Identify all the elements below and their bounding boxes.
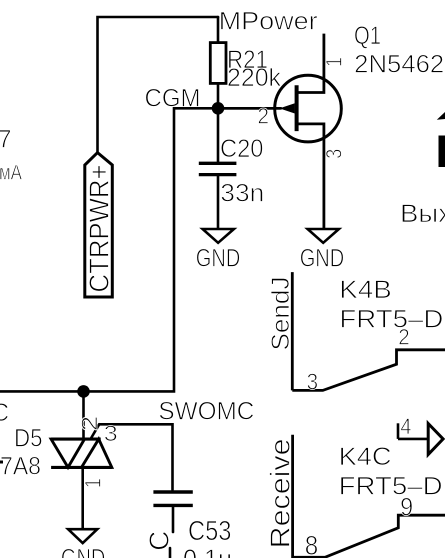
wire C53 bottom lead: [172, 507, 175, 532]
svg-text:FRT5–D: FRT5–D: [339, 306, 443, 334]
TVS diode D5: [51, 439, 112, 467]
svg-text:GND: GND: [196, 245, 241, 273]
port arrow pin 4 of K4C: [398, 423, 443, 454]
junction dot SWOMC node: [77, 385, 90, 398]
wire C20 bottom to ground: [217, 176, 220, 229]
svg-text:3: 3: [307, 368, 319, 394]
svg-text:2: 2: [258, 104, 270, 129]
svg-text:SendJ: SendJ: [267, 277, 295, 351]
relay contact K4C: [293, 435, 445, 558]
wire R21 bottom to node: [217, 83, 220, 108]
wire CGM net: [0, 108, 281, 391]
arrow tip fragment at right edge: [437, 112, 445, 120]
svg-text:4: 4: [400, 414, 411, 439]
svg-text:Вых: Вых: [400, 200, 445, 228]
svg-text:MPower: MPower: [219, 8, 318, 36]
svg-text:K4C: K4C: [339, 443, 392, 471]
svg-text:Q1: Q1: [354, 22, 381, 50]
svg-text:33n: 33n: [220, 180, 264, 208]
node CGM junction dot: [212, 102, 225, 115]
resistor R21: [210, 43, 226, 84]
svg-text:8: 8: [305, 531, 319, 558]
svg-text:1: 1: [322, 57, 347, 67]
ground under D5: [68, 529, 97, 543]
capacitor C53: [153, 492, 192, 505]
wire D5 pin2: [82, 391, 85, 437]
svg-text:C: C: [144, 531, 175, 551]
svg-text:0.1u: 0.1u: [183, 544, 232, 558]
fragment of clipped value text: [0, 461, 3, 464]
connector fragment at right edge: [439, 136, 445, 168]
wire D5 pin1 to ground: [81, 469, 84, 529]
svg-text:7: 7: [0, 125, 12, 153]
relay contact K4B: [292, 272, 445, 390]
svg-text:Receive: Receive: [265, 438, 296, 548]
svg-text:D5: D5: [14, 425, 43, 453]
wire R21 top: [217, 17, 220, 43]
svg-text:2: 2: [77, 416, 102, 432]
wire top rail MPower: [98, 17, 219, 153]
svg-text:C53: C53: [188, 515, 232, 546]
ground under Q1: [308, 229, 339, 243]
ground under C20: [203, 229, 234, 243]
capacitor C20: [199, 163, 237, 174]
wire SWOMC to C53: [99, 424, 172, 490]
svg-text:C: C: [0, 399, 9, 427]
wire D5 pin3 diagonal: [91, 424, 100, 439]
svg-text:SWOMC: SWOMC: [158, 398, 254, 426]
svg-text:CGM: CGM: [145, 84, 201, 112]
svg-text:3: 3: [104, 421, 118, 446]
transistor Q1 2N5462: [218, 34, 341, 229]
wire C20 top: [217, 108, 220, 162]
net flag CTRPWR+: [85, 153, 113, 297]
svg-text:220k: 220k: [227, 64, 281, 92]
svg-text:2N5462: 2N5462: [354, 50, 444, 78]
svg-text:C20: C20: [220, 135, 264, 163]
svg-text:3: 3: [322, 149, 347, 159]
svg-text:FRT5–D: FRT5–D: [339, 473, 443, 501]
svg-text:7A8: 7A8: [0, 453, 41, 481]
wire C53 net continues: [169, 548, 172, 558]
svg-text:CTRPWR+: CTRPWR+: [84, 165, 115, 293]
svg-text:мА: мА: [0, 162, 22, 185]
svg-text:2: 2: [398, 324, 410, 349]
svg-text:GND: GND: [300, 245, 345, 273]
svg-text:1: 1: [81, 478, 106, 488]
svg-text:K4B: K4B: [339, 276, 392, 304]
svg-text:GND: GND: [61, 545, 106, 558]
svg-text:9: 9: [400, 494, 413, 522]
